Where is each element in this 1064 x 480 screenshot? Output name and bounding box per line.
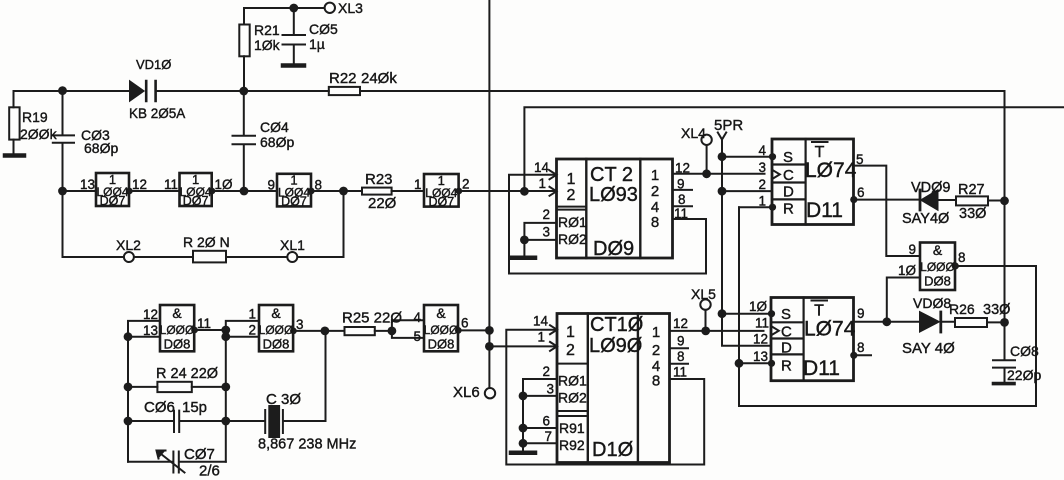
svg-text:2: 2 (248, 323, 256, 338)
svg-text:R23: R23 (365, 171, 393, 188)
wire CT10 pin12 to FF2 clock (670, 330, 764, 332)
svg-text:1: 1 (758, 194, 766, 209)
svg-text:CT1Ø: CT1Ø (590, 314, 643, 336)
svg-text:DØ8: DØ8 (428, 337, 455, 352)
terminal XL3 (325, 3, 335, 13)
svg-text:DØ8: DØ8 (263, 337, 290, 352)
svg-text:8: 8 (652, 373, 660, 390)
svg-text:XL3: XL3 (338, 0, 363, 16)
junction CT2 pin1 (520, 187, 529, 196)
junction C05 top (289, 4, 298, 13)
svg-text:S: S (781, 306, 791, 323)
wire CT2 feedback pin11 to pin14 (509, 175, 706, 274)
svg-text:14: 14 (533, 314, 549, 329)
FF2 pin8 stub (850, 352, 857, 359)
svg-text:12: 12 (132, 177, 147, 192)
svg-text:CØ4: CØ4 (260, 119, 289, 135)
wire CT2 reset pins (524, 223, 556, 257)
ground CT10 (511, 451, 535, 456)
svg-text:1: 1 (538, 176, 546, 191)
svg-text:8: 8 (677, 349, 685, 364)
svg-text:XL4: XL4 (681, 125, 706, 141)
svg-text:R: R (781, 358, 792, 375)
capacitor C05 (283, 8, 306, 64)
junction C04 bottom (240, 187, 249, 196)
NAND gate U8a box (160, 305, 194, 351)
svg-text:1: 1 (651, 167, 659, 184)
svg-text:CØ7: CØ7 (184, 446, 215, 463)
wire CT2 pin12 to FF1 clock (673, 173, 765, 175)
junction C03 top (58, 86, 67, 95)
svg-text:&: & (172, 305, 182, 321)
vertical U8b-input to C06/C07 link (225, 337, 227, 462)
svg-text:R19: R19 (22, 109, 48, 125)
counter CT10 D10 box (557, 314, 670, 463)
svg-text:1Ø: 1Ø (215, 177, 234, 192)
inverter U7c box (277, 174, 311, 207)
resistor R23 (362, 188, 392, 195)
svg-text:C: C (781, 324, 792, 341)
svg-text:DØ7: DØ7 (100, 194, 126, 208)
wire CT2 input riser + top line to right edge (524, 107, 1064, 191)
svg-text:LØØØ: LØØØ (259, 323, 294, 337)
svg-text:D: D (781, 340, 792, 357)
svg-text:LØ9Ø: LØ9Ø (589, 335, 642, 357)
svg-text:22Øp: 22Øp (1007, 367, 1041, 383)
svg-text:SAY4Ø: SAY4Ø (902, 211, 949, 227)
svg-text:3: 3 (542, 225, 550, 240)
wire inverter row y191 (63, 190, 557, 192)
svg-text:24Øk: 24Øk (361, 70, 397, 87)
FF1 T overline (812, 141, 828, 143)
svg-text:6: 6 (542, 414, 550, 429)
svg-text:9: 9 (857, 306, 865, 321)
CT10 pin9 stub (670, 347, 689, 349)
wire bottom loop XL2 XL1 (63, 191, 344, 257)
svg-text:2: 2 (566, 342, 575, 359)
resistor R19 (13, 91, 15, 107)
svg-text:2: 2 (652, 342, 660, 359)
svg-text:CØ6: CØ6 (144, 399, 175, 416)
svg-text:13: 13 (753, 349, 768, 364)
svg-text:DØ9: DØ9 (593, 238, 634, 260)
svg-text:R26: R26 (949, 301, 975, 317)
junction bottom-loop right (339, 187, 348, 196)
svg-text:2: 2 (462, 177, 470, 192)
svg-text:R22: R22 (329, 70, 357, 87)
svg-text:68Øp: 68Øp (260, 134, 294, 150)
svg-text:1: 1 (566, 324, 575, 341)
svg-text:DØ7: DØ7 (281, 195, 307, 209)
svg-text:5: 5 (856, 152, 864, 167)
resistor R21 (239, 25, 249, 57)
svg-text:8: 8 (678, 192, 686, 207)
resistor R27 (956, 196, 988, 205)
svg-text:S: S (783, 149, 793, 166)
svg-text:D11: D11 (803, 357, 840, 380)
FF1 pin6 output bubble and wire to VD09 (850, 196, 857, 203)
svg-text:11: 11 (164, 177, 178, 192)
wire CT10 reset pins (523, 379, 557, 452)
svg-text:VDØ9: VDØ9 (911, 180, 951, 196)
svg-text:R91: R91 (559, 420, 585, 436)
svg-text:33Ø: 33Ø (959, 206, 986, 222)
svg-text:R 24 22Ø: R 24 22Ø (156, 366, 218, 382)
svg-text:3: 3 (546, 382, 554, 397)
flip-flop D11 lower box (771, 298, 854, 381)
svg-text:13: 13 (80, 177, 95, 192)
svg-text:DØ7: DØ7 (428, 195, 454, 209)
NAND gate U8b box (259, 305, 293, 351)
wire CT10 pin1 input (489, 345, 557, 347)
svg-text:3: 3 (296, 317, 304, 332)
svg-text:XL5: XL5 (691, 286, 716, 302)
CT10 pin8 stub (670, 363, 689, 365)
wire U8a output to U8b inputs (195, 321, 260, 337)
svg-text:RØ2: RØ2 (558, 390, 587, 406)
CT2 pin9 stub (673, 189, 693, 191)
svg-text:DØ7: DØ7 (183, 194, 209, 208)
varicap VD10 KB205A (130, 82, 143, 101)
svg-text:11: 11 (197, 316, 211, 331)
svg-text:6: 6 (857, 185, 865, 200)
svg-text:LØØØ: LØØØ (920, 260, 955, 274)
svg-text:8: 8 (315, 178, 323, 193)
svg-text:CØ8: CØ8 (1010, 343, 1039, 359)
svg-text:RØ1: RØ1 (558, 373, 587, 389)
FF1 D input wire pin2 (722, 190, 772, 192)
wire U8c inputs (392, 320, 424, 338)
diode VD08 SAY40 (920, 312, 939, 331)
svg-text:15p: 15p (182, 399, 207, 416)
FF2 R input wire pin13 (739, 362, 771, 364)
svg-text:7: 7 (544, 429, 552, 444)
svg-text:RØ1: RØ1 (558, 214, 587, 230)
CT2 pin1 input arrow (550, 187, 557, 196)
svg-text:1: 1 (567, 171, 576, 188)
svg-text:D1Ø: D1Ø (592, 439, 633, 461)
ground R19 (5, 153, 24, 158)
wire top supply rail to XL3 (244, 8, 325, 25)
wire FF1 pin5 to NAND pin9 (854, 166, 921, 256)
wire CT10 feedback pin11 to pin14 (506, 330, 704, 465)
svg-text:1Ø: 1Ø (749, 299, 768, 314)
svg-text:13: 13 (143, 323, 158, 338)
crystal C30 (226, 410, 265, 433)
svg-text:D: D (783, 184, 794, 201)
svg-text:&: & (933, 242, 943, 258)
svg-text:2: 2 (542, 364, 550, 379)
wire U8a inputs from left rail (128, 321, 160, 462)
svg-text:CØ5: CØ5 (309, 21, 338, 37)
wire NAND pin10 from FF2 pin9 (887, 278, 920, 322)
terminal XL4 (706, 145, 708, 174)
svg-text:8: 8 (958, 250, 966, 265)
svg-text:R27: R27 (958, 182, 985, 198)
resistor R22 (329, 87, 360, 95)
svg-text:LØ74: LØ74 (804, 318, 856, 341)
svg-text:1: 1 (652, 324, 660, 341)
FF1 R input wire pin1 (739, 206, 772, 208)
crystal branch vertical (325, 331, 327, 421)
svg-text:R25 22Ø: R25 22Ø (342, 310, 402, 327)
svg-text:11: 11 (673, 365, 687, 380)
svg-text:LØ93: LØ93 (589, 184, 638, 206)
svg-text:11: 11 (755, 316, 769, 331)
FF2 clock chevron (771, 326, 779, 335)
wire R21 bottom lead (243, 56, 245, 91)
svg-text:2/6: 2/6 (199, 463, 220, 480)
svg-text:C: C (783, 167, 794, 184)
svg-text:2: 2 (651, 183, 659, 200)
svg-text:2: 2 (758, 177, 766, 192)
svg-text:D11: D11 (806, 199, 843, 222)
capacitor C04 (233, 91, 256, 191)
svg-text:22Ø: 22Ø (368, 195, 397, 212)
svg-text:1: 1 (537, 330, 545, 345)
capacitor C08 (993, 360, 1015, 382)
FF1 S input wire pin4 (722, 156, 772, 158)
svg-text:1: 1 (414, 177, 422, 192)
terminal XL5 (705, 310, 707, 331)
FF1 clock chevron (772, 170, 780, 179)
svg-text:1Ø: 1Ø (898, 263, 917, 278)
svg-text:9: 9 (908, 242, 916, 257)
resistor R24 (128, 386, 157, 388)
inverter U7b box (180, 173, 212, 206)
svg-text:R92: R92 (559, 437, 585, 453)
svg-text:8: 8 (857, 340, 865, 355)
FF2 T overline (812, 300, 828, 302)
svg-text:&: & (436, 305, 446, 321)
svg-text:8: 8 (651, 214, 659, 231)
svg-text:3: 3 (758, 160, 766, 175)
svg-text:LØØØ: LØØØ (424, 323, 459, 337)
flip-flop D11 upper box (772, 139, 854, 225)
svg-text:8,867 238 MHz: 8,867 238 MHz (258, 437, 356, 453)
svg-text:68Øp: 68Øp (84, 140, 118, 156)
resistor R20 (193, 251, 226, 263)
NAND gate U8d D08 box (920, 243, 955, 291)
terminal XL1 (287, 252, 297, 262)
svg-text:2ØØk: 2ØØk (20, 126, 58, 142)
junction C03 bottom (58, 187, 67, 196)
svg-text:KB 2Ø5A: KB 2Ø5A (129, 106, 185, 121)
svg-text:XL6: XL6 (453, 384, 480, 401)
wire main bias rail y91 (14, 90, 1005, 92)
svg-text:2: 2 (542, 207, 550, 222)
svg-text:33Ø: 33Ø (983, 302, 1010, 318)
wire NAND output to reset net (739, 207, 1036, 406)
svg-text:1: 1 (248, 307, 256, 322)
trimmer capacitor C07 (128, 452, 226, 473)
long vertical oscillator net to XL6 (488, 0, 490, 388)
svg-text:R: R (783, 201, 794, 218)
svg-text:6: 6 (461, 316, 469, 331)
svg-text:11: 11 (674, 206, 688, 221)
svg-text:4: 4 (758, 143, 766, 158)
inverter U7d box (424, 174, 459, 207)
svg-text:5: 5 (413, 329, 421, 344)
wire U8c output to XL6 net (458, 329, 489, 331)
svg-text:RØ2: RØ2 (558, 231, 587, 247)
counter CT2 D09 box (557, 159, 673, 258)
svg-text:12: 12 (753, 332, 768, 347)
svg-text:14: 14 (534, 160, 550, 175)
terminal XL2 (124, 252, 134, 262)
svg-text:12: 12 (673, 316, 688, 331)
wire U8b output (293, 330, 344, 332)
svg-text:LØØØ: LØØØ (160, 323, 195, 337)
terminal XL6 (485, 388, 495, 398)
svg-text:2: 2 (567, 187, 576, 204)
5PR supply arrow and rail (718, 133, 726, 140)
svg-text:VDØ8: VDØ8 (913, 295, 951, 311)
svg-text:9: 9 (677, 177, 685, 192)
svg-text:CT 2: CT 2 (590, 164, 633, 186)
svg-text:R21: R21 (254, 22, 280, 38)
capacitor C06 (128, 411, 226, 432)
svg-text:LØ74: LØ74 (805, 159, 857, 182)
svg-text:XL1: XL1 (280, 237, 305, 253)
CT2 pin8 stub (673, 205, 693, 207)
ground CT2 (512, 256, 535, 261)
CT2 pin14 input arrow (550, 170, 557, 179)
svg-text:1Øk: 1Øk (254, 37, 281, 53)
svg-text:9: 9 (267, 178, 275, 193)
resistor R26 (955, 318, 987, 327)
svg-text:9: 9 (677, 334, 685, 349)
svg-text:1µ: 1µ (309, 36, 325, 52)
svg-text:R 2Ø N: R 2Ø N (183, 234, 230, 250)
ground C05 (283, 63, 304, 68)
svg-text:&: & (271, 305, 281, 321)
svg-text:12: 12 (143, 307, 158, 322)
junction R21/C04/rail (239, 87, 248, 96)
svg-text:VD1Ø: VD1Ø (136, 57, 171, 72)
capacitor C03 (53, 91, 74, 191)
resistor R25 (345, 327, 375, 335)
diode VD09 SAY40 (919, 190, 922, 210)
FF2 S input wire pin10 (722, 313, 771, 315)
inverter U7a box (96, 173, 129, 206)
svg-text:SAY 4Ø: SAY 4Ø (902, 340, 955, 357)
svg-text:4: 4 (413, 310, 421, 325)
svg-text:DØ8: DØ8 (164, 337, 191, 352)
svg-text:12: 12 (675, 161, 690, 176)
NAND gate U8c box (424, 305, 458, 351)
CT10 pin1 input arrow (550, 342, 557, 351)
svg-text:DØ8: DØ8 (924, 274, 951, 289)
svg-text:XL2: XL2 (116, 237, 141, 253)
svg-text:C 3Ø: C 3Ø (266, 391, 301, 408)
wire FF2 pin9 to VD08 (854, 321, 921, 323)
svg-text:5PR: 5PR (714, 117, 743, 134)
CT10 pin14 input arrow (550, 325, 557, 334)
wire R22 net vertical (1004, 91, 1006, 360)
